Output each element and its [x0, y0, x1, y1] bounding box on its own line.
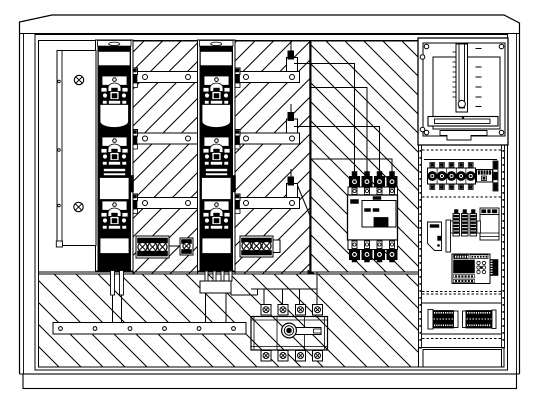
meter panel M1 — [418, 38, 508, 145]
busbar support band 3 — [131, 194, 300, 214]
auxiliary box — [480, 208, 499, 240]
terminal block B — [169, 238, 193, 255]
small fuse holder device 1 — [287, 51, 298, 72]
changeover disconnect switch Q2 — [251, 305, 328, 362]
hatched panel column 1 — [133, 41, 198, 274]
door knob symbol 2 — [74, 202, 83, 211]
MCCB circuit breaker Q1 — [348, 172, 398, 263]
busbar support band 1 — [131, 68, 300, 88]
dashed separator 4 — [422, 338, 501, 340]
wire stems under strip F2 — [200, 271, 232, 324]
cabinet plinth base — [20, 374, 520, 389]
bottom busbar — [53, 323, 246, 335]
bottom hatched region — [39, 272, 419, 367]
column bottom pedestal — [419, 348, 505, 368]
busbar support band 2 — [131, 130, 300, 150]
terminal block C — [240, 236, 280, 257]
door knob symbol 1 — [74, 75, 83, 84]
terminal block A — [136, 236, 169, 258]
dashed separator 3 — [422, 292, 501, 295]
mounting plate — [428, 222, 442, 251]
inner mounting frame — [35, 35, 508, 371]
separator line — [422, 302, 501, 304]
small fuse holder device 3 — [287, 177, 298, 198]
central hatched region — [310, 41, 419, 274]
connector comb — [490, 260, 498, 276]
contactor K1 — [450, 210, 481, 237]
dashed separator 1 — [422, 149, 501, 151]
wire runs to MCCB — [291, 41, 392, 217]
small fuse holder device 2 — [287, 113, 298, 134]
DIN column rails — [419, 145, 505, 348]
NH fuse switch strip F1 — [96, 40, 134, 271]
controller relay U1 — [452, 254, 490, 284]
DIN rail bar — [446, 220, 451, 252]
terminal strip row X1 — [428, 310, 496, 330]
MCB breaker row — [424, 160, 498, 192]
NH fuse switch strip F2 — [198, 40, 236, 271]
separator line 2 — [422, 333, 501, 335]
hatched panel column 2 — [235, 41, 311, 274]
wire stems under strip F1 — [111, 271, 124, 325]
left door panel — [56, 51, 96, 248]
wires to switch — [231, 271, 317, 307]
dashed separator 2 — [422, 196, 501, 198]
